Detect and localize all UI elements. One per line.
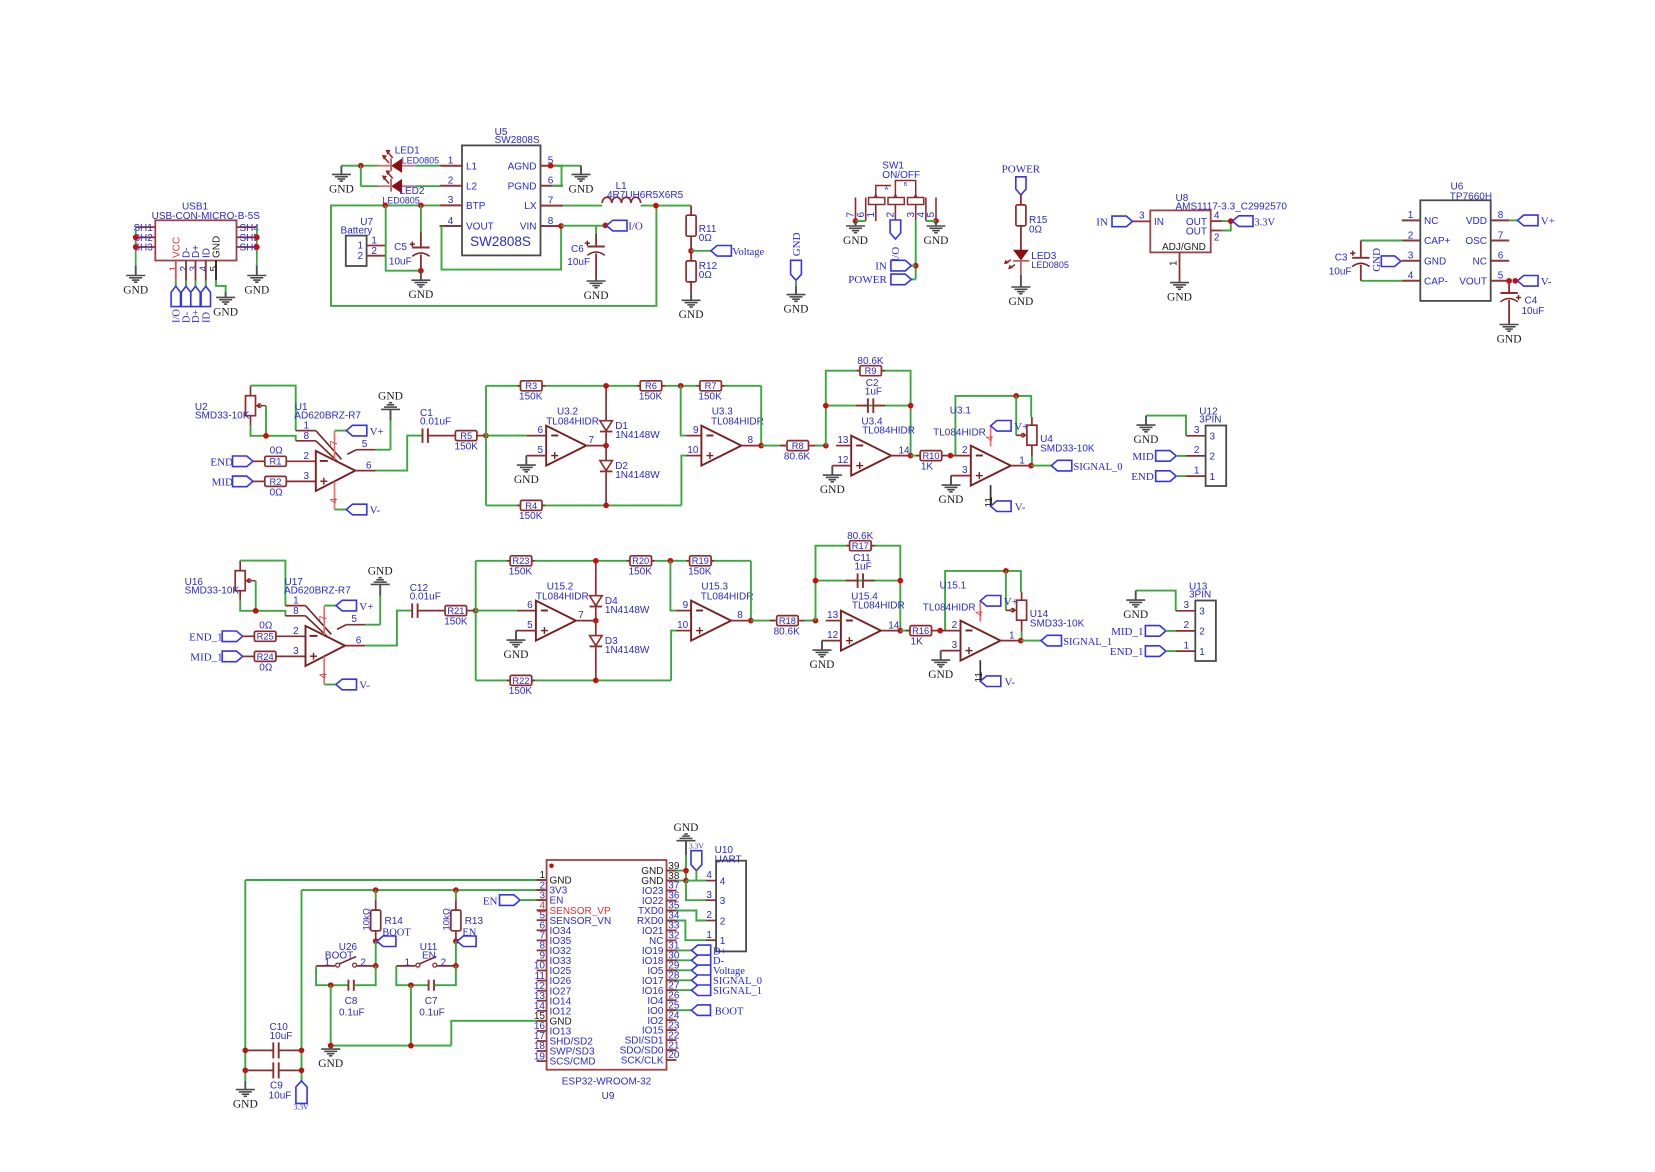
- svg-text:SIGNAL_0: SIGNAL_0: [1074, 462, 1123, 473]
- svg-text:7: 7: [589, 435, 595, 446]
- svg-text:150K: 150K: [629, 566, 653, 577]
- svg-text:PGND: PGND: [508, 181, 537, 192]
- svg-text:2: 2: [1199, 627, 1205, 638]
- svg-text:MID: MID: [212, 477, 233, 489]
- svg-text:GND: GND: [1008, 296, 1033, 308]
- svg-text:V-: V-: [1015, 501, 1026, 513]
- svg-text:8: 8: [1498, 210, 1504, 221]
- svg-text:R24: R24: [257, 652, 274, 662]
- svg-text:5: 5: [537, 445, 543, 456]
- svg-text:0Ω: 0Ω: [270, 445, 284, 456]
- svg-text:1: 1: [1169, 260, 1180, 266]
- svg-text:3: 3: [1194, 425, 1200, 436]
- svg-text:END: END: [210, 457, 233, 469]
- svg-text:4R7UH6R5X6R5: 4R7UH6R5X6R5: [607, 190, 684, 201]
- svg-text:VDD: VDD: [1466, 216, 1487, 227]
- svg-text:I/O: I/O: [628, 221, 643, 233]
- svg-text:5: 5: [362, 439, 368, 450]
- svg-text:8: 8: [303, 431, 309, 442]
- svg-text:2: 2: [1408, 230, 1414, 241]
- svg-text:TL084HIDR: TL084HIDR: [923, 602, 976, 613]
- svg-text:1N4148W: 1N4148W: [615, 430, 660, 441]
- svg-text:19: 19: [534, 1051, 546, 1062]
- svg-text:1: 1: [866, 212, 877, 218]
- svg-text:2: 2: [1184, 620, 1190, 631]
- svg-text:6: 6: [537, 425, 543, 436]
- svg-text:10kΩ: 10kΩ: [361, 908, 372, 930]
- svg-text:7: 7: [329, 440, 340, 446]
- svg-text:U3.1: U3.1: [950, 405, 972, 416]
- svg-text:Battery: Battery: [341, 225, 373, 236]
- svg-text:R9: R9: [865, 366, 877, 376]
- svg-text:LED0805: LED0805: [402, 156, 440, 166]
- svg-text:0Ω: 0Ω: [259, 620, 273, 631]
- svg-text:3: 3: [706, 890, 712, 901]
- svg-text:ON/OFF: ON/OFF: [882, 170, 920, 181]
- svg-text:MID: MID: [1132, 451, 1153, 463]
- svg-text:2: 2: [952, 620, 958, 631]
- svg-text:EN: EN: [462, 928, 476, 939]
- svg-text:V+: V+: [1004, 596, 1018, 608]
- svg-text:R7: R7: [705, 381, 717, 391]
- svg-text:GND: GND: [791, 232, 803, 256]
- svg-text:12: 12: [837, 455, 849, 466]
- svg-text:2: 2: [706, 910, 712, 921]
- svg-text:0Ω: 0Ω: [699, 270, 713, 281]
- svg-text:L1: L1: [466, 161, 478, 172]
- svg-text:3: 3: [1139, 211, 1145, 222]
- svg-text:2: 2: [1214, 232, 1220, 243]
- svg-text:R13: R13: [465, 916, 484, 927]
- svg-text:13: 13: [827, 610, 839, 621]
- svg-text:UART: UART: [715, 854, 742, 865]
- svg-text:10uF: 10uF: [1329, 267, 1352, 278]
- svg-text:OUT: OUT: [1186, 227, 1207, 238]
- svg-text:R25: R25: [257, 632, 274, 642]
- svg-text:2: 2: [1194, 445, 1200, 456]
- svg-text:VOUT: VOUT: [1459, 277, 1487, 288]
- svg-text:1K: 1K: [911, 636, 924, 647]
- svg-text:1: 1: [1210, 472, 1216, 483]
- svg-text:150K: 150K: [509, 686, 533, 697]
- svg-text:R23: R23: [512, 556, 529, 566]
- svg-text:TL084HIDR: TL084HIDR: [862, 426, 915, 437]
- svg-text:3.3V: 3.3V: [689, 842, 704, 851]
- svg-text:10uF: 10uF: [389, 256, 412, 267]
- svg-text:1N4148W: 1N4148W: [615, 470, 660, 481]
- svg-text:2: 2: [962, 445, 968, 456]
- svg-text:R22: R22: [512, 676, 529, 686]
- svg-text:2: 2: [1210, 452, 1216, 463]
- svg-text:13: 13: [837, 435, 849, 446]
- svg-text:20: 20: [668, 1050, 680, 1061]
- svg-text:GND: GND: [514, 474, 539, 486]
- svg-text:2: 2: [360, 958, 366, 969]
- svg-text:5: 5: [926, 212, 937, 218]
- svg-text:150K: 150K: [688, 566, 712, 577]
- svg-text:4: 4: [720, 876, 726, 887]
- svg-text:R4: R4: [525, 501, 537, 511]
- svg-text:V-: V-: [370, 505, 381, 517]
- svg-text:1: 1: [706, 930, 712, 941]
- svg-text:GND: GND: [408, 289, 433, 301]
- svg-text:10uF: 10uF: [269, 1090, 292, 1101]
- svg-text:POWER: POWER: [1002, 164, 1041, 176]
- svg-text:0.1uF: 0.1uF: [419, 1007, 445, 1018]
- svg-text:C3: C3: [1335, 252, 1348, 263]
- svg-text:1: 1: [1184, 640, 1190, 651]
- svg-text:GND: GND: [1167, 292, 1192, 304]
- svg-text:SW2808S: SW2808S: [495, 135, 540, 146]
- svg-text:R17: R17: [852, 541, 869, 551]
- svg-text:SMD33-10K: SMD33-10K: [1030, 619, 1085, 630]
- svg-text:EN: EN: [422, 951, 436, 962]
- svg-text:GND: GND: [1134, 434, 1159, 446]
- svg-text:2: 2: [293, 626, 299, 637]
- svg-text:1: 1: [1194, 465, 1200, 476]
- svg-text:2: 2: [448, 176, 454, 187]
- svg-text:10: 10: [687, 445, 699, 456]
- svg-text:ESP32-WROOM-32: ESP32-WROOM-32: [562, 1076, 652, 1087]
- svg-text:1K: 1K: [921, 461, 934, 472]
- svg-text:4: 4: [448, 216, 454, 227]
- svg-text:V-: V-: [1541, 276, 1552, 288]
- svg-text:POWER: POWER: [848, 274, 887, 286]
- svg-text:IN: IN: [1154, 217, 1164, 228]
- svg-text:4: 4: [329, 498, 340, 504]
- svg-text:C8: C8: [345, 996, 358, 1007]
- svg-text:LED0805: LED0805: [1031, 260, 1069, 270]
- svg-text:2: 2: [303, 451, 309, 462]
- svg-text:1: 1: [303, 420, 309, 431]
- svg-text:CAP+: CAP+: [1424, 236, 1451, 247]
- svg-text:8: 8: [748, 435, 754, 446]
- svg-text:3: 3: [962, 465, 968, 476]
- svg-text:GND: GND: [504, 649, 529, 661]
- svg-text:C4: C4: [1525, 295, 1538, 306]
- svg-text:7: 7: [548, 195, 554, 206]
- svg-text:SMD33-10K: SMD33-10K: [195, 410, 250, 421]
- svg-text:BTP: BTP: [466, 201, 486, 212]
- svg-text:V+: V+: [359, 601, 373, 613]
- svg-text:BOOT: BOOT: [715, 1006, 744, 1017]
- svg-text:3PIN: 3PIN: [1189, 589, 1211, 600]
- svg-text:150K: 150K: [455, 441, 479, 452]
- svg-text:2: 2: [357, 251, 363, 262]
- svg-text:GND: GND: [212, 236, 223, 258]
- svg-text:CAP-: CAP-: [1424, 277, 1448, 288]
- svg-text:SIGNAL_1: SIGNAL_1: [1063, 637, 1112, 648]
- svg-text:4: 4: [1408, 271, 1414, 282]
- svg-text:V+: V+: [370, 426, 384, 438]
- svg-text:R19: R19: [692, 556, 709, 566]
- svg-text:GND: GND: [318, 1058, 343, 1070]
- svg-text:7: 7: [578, 610, 584, 621]
- svg-text:C7: C7: [425, 996, 438, 1007]
- svg-text:GND: GND: [784, 304, 809, 316]
- svg-text:NC: NC: [1424, 216, 1438, 227]
- svg-text:3PIN: 3PIN: [1199, 414, 1221, 425]
- svg-text:6: 6: [1498, 251, 1504, 262]
- svg-text:GND: GND: [924, 235, 949, 247]
- svg-text:3.3V: 3.3V: [1254, 217, 1275, 228]
- svg-text:TL084HIDR: TL084HIDR: [933, 427, 986, 438]
- svg-text:END_1: END_1: [189, 632, 223, 644]
- svg-text:5: 5: [1498, 271, 1504, 282]
- svg-text:10uF: 10uF: [567, 257, 590, 268]
- svg-text:0.01uF: 0.01uF: [420, 417, 451, 428]
- svg-text:U15.1: U15.1: [940, 580, 967, 591]
- svg-text:10kΩ: 10kΩ: [442, 908, 453, 930]
- svg-text:1: 1: [405, 958, 411, 969]
- svg-text:0.01uF: 0.01uF: [410, 592, 441, 603]
- svg-text:3: 3: [1184, 600, 1190, 611]
- svg-text:150K: 150K: [509, 566, 533, 577]
- svg-text:R10: R10: [922, 451, 939, 461]
- svg-text:GND: GND: [584, 290, 609, 302]
- svg-text:C5: C5: [394, 242, 407, 253]
- svg-text:10uF: 10uF: [1522, 306, 1545, 317]
- svg-text:1: 1: [324, 958, 330, 969]
- svg-text:I/O: I/O: [890, 247, 902, 262]
- svg-text:1N4148W: 1N4148W: [605, 605, 650, 616]
- svg-text:SMD33-10K: SMD33-10K: [185, 585, 240, 596]
- svg-text:R16: R16: [912, 626, 929, 636]
- svg-text:R18: R18: [779, 616, 796, 626]
- svg-text:SCS/CMD: SCS/CMD: [550, 1057, 596, 1068]
- svg-text:7: 7: [319, 615, 330, 621]
- svg-text:2: 2: [886, 212, 897, 218]
- svg-text:GND: GND: [329, 183, 354, 195]
- svg-text:EN: EN: [483, 895, 498, 907]
- svg-text:SW2808S: SW2808S: [470, 234, 531, 249]
- svg-text:80.6K: 80.6K: [774, 627, 800, 638]
- svg-text:80.6K: 80.6K: [784, 452, 810, 463]
- svg-text:V-: V-: [1005, 676, 1016, 688]
- svg-text:GND: GND: [820, 484, 845, 496]
- svg-text:AGND: AGND: [508, 161, 537, 172]
- svg-text:IN: IN: [1096, 216, 1108, 228]
- svg-text:5: 5: [209, 266, 220, 272]
- svg-text:0.1uF: 0.1uF: [339, 1007, 365, 1018]
- svg-text:GND: GND: [810, 659, 835, 671]
- svg-text:R8: R8: [792, 441, 804, 451]
- svg-text:MID_1: MID_1: [190, 652, 222, 664]
- svg-text:3: 3: [448, 195, 454, 206]
- svg-text:NC: NC: [1473, 256, 1487, 267]
- svg-text:ID: ID: [201, 312, 212, 323]
- svg-text:END: END: [1131, 471, 1154, 483]
- svg-text:GND: GND: [843, 235, 868, 247]
- svg-text:VOUT: VOUT: [466, 222, 494, 233]
- svg-text:GND: GND: [679, 309, 704, 321]
- svg-text:V+: V+: [1014, 421, 1028, 433]
- svg-text:1: 1: [1009, 630, 1015, 641]
- svg-text:GND: GND: [674, 822, 699, 834]
- svg-text:Voltage: Voltage: [732, 247, 764, 258]
- svg-text:3: 3: [1199, 607, 1205, 618]
- svg-text:3: 3: [952, 640, 958, 651]
- svg-text:1uF: 1uF: [865, 386, 882, 397]
- svg-text:TL084HIDR: TL084HIDR: [711, 416, 764, 427]
- svg-text:R2: R2: [270, 477, 282, 487]
- svg-text:V-: V-: [359, 680, 370, 692]
- svg-text:150K: 150K: [519, 391, 543, 402]
- svg-text:2: 2: [441, 958, 447, 969]
- svg-text:5: 5: [527, 620, 533, 631]
- svg-text:10: 10: [677, 620, 689, 631]
- svg-text:3: 3: [720, 896, 726, 907]
- svg-text:2: 2: [720, 916, 726, 927]
- svg-text:U9: U9: [602, 1091, 615, 1102]
- svg-text:6: 6: [527, 600, 533, 611]
- svg-text:ADJ/GND: ADJ/GND: [1162, 242, 1206, 253]
- svg-text:R5: R5: [460, 431, 472, 441]
- svg-text:8: 8: [737, 610, 743, 621]
- svg-text:LX: LX: [524, 201, 537, 212]
- svg-text:1: 1: [1019, 455, 1025, 466]
- svg-text:TL084HIDR: TL084HIDR: [701, 591, 754, 602]
- svg-text:GND: GND: [1497, 333, 1522, 345]
- svg-text:3: 3: [1210, 432, 1216, 443]
- svg-text:SMD33-10K: SMD33-10K: [1040, 444, 1095, 455]
- svg-text:GND: GND: [569, 183, 594, 195]
- svg-text:1: 1: [293, 595, 299, 606]
- svg-text:R20: R20: [632, 556, 649, 566]
- svg-text:TL084HIDR: TL084HIDR: [546, 416, 599, 427]
- svg-text:150K: 150K: [639, 391, 663, 402]
- svg-text:4: 4: [975, 610, 986, 616]
- svg-text:12: 12: [827, 630, 839, 641]
- svg-text:80.6K: 80.6K: [847, 531, 873, 542]
- svg-text:TL084HIDR: TL084HIDR: [852, 601, 905, 612]
- svg-text:4: 4: [319, 673, 330, 679]
- svg-text:TL084HIDR: TL084HIDR: [536, 591, 589, 602]
- svg-text:MID_1: MID_1: [1111, 626, 1143, 638]
- svg-text:SIGNAL_1: SIGNAL_1: [713, 986, 762, 997]
- svg-text:3: 3: [293, 646, 299, 657]
- svg-text:150K: 150K: [698, 391, 722, 402]
- svg-text:SCK/CLK: SCK/CLK: [621, 1056, 664, 1067]
- svg-text:150K: 150K: [519, 511, 543, 522]
- svg-text:GND: GND: [233, 1099, 258, 1111]
- svg-text:GND: GND: [939, 494, 964, 506]
- svg-text:0Ω: 0Ω: [1029, 224, 1043, 235]
- svg-text:10uF: 10uF: [270, 1031, 293, 1042]
- svg-text:8: 8: [293, 606, 299, 617]
- svg-text:C6: C6: [571, 244, 584, 255]
- svg-text:R21: R21: [447, 606, 464, 616]
- svg-text:R3: R3: [525, 381, 537, 391]
- svg-text:80.6K: 80.6K: [857, 356, 883, 367]
- svg-text:0Ω: 0Ω: [270, 487, 284, 498]
- svg-text:END_1: END_1: [1110, 646, 1144, 658]
- svg-text:1: 1: [448, 156, 454, 167]
- svg-text:L2: L2: [466, 181, 478, 192]
- svg-text:GND: GND: [213, 306, 238, 318]
- svg-text:1: 1: [1408, 210, 1414, 221]
- svg-text:150K: 150K: [444, 616, 468, 627]
- svg-text:VIN: VIN: [520, 222, 537, 233]
- svg-text:3: 3: [303, 471, 309, 482]
- svg-text:V+: V+: [1541, 216, 1555, 228]
- svg-text:8: 8: [548, 216, 554, 227]
- svg-text:USB-CON-MICRO-B-5S: USB-CON-MICRO-B-5S: [152, 211, 261, 222]
- svg-text:2: 2: [371, 246, 377, 257]
- svg-text:OSC: OSC: [1465, 236, 1487, 247]
- svg-text:9: 9: [683, 600, 689, 611]
- svg-text:4: 4: [706, 870, 712, 881]
- svg-text:4: 4: [1214, 210, 1220, 221]
- svg-text:GND: GND: [244, 284, 269, 296]
- svg-text:R1: R1: [270, 457, 282, 467]
- svg-text:GND: GND: [928, 669, 953, 681]
- svg-text:3: 3: [1408, 251, 1414, 262]
- svg-text:IN: IN: [875, 260, 887, 272]
- svg-text:1: 1: [1199, 647, 1205, 658]
- svg-text:GND: GND: [1123, 609, 1148, 621]
- svg-text:GND: GND: [368, 566, 393, 578]
- svg-text:1uF: 1uF: [854, 561, 871, 572]
- svg-text:GND: GND: [1424, 256, 1446, 267]
- svg-text:4: 4: [985, 435, 996, 441]
- svg-text:0Ω: 0Ω: [259, 662, 273, 673]
- svg-text:0Ω: 0Ω: [699, 233, 713, 244]
- svg-text:GND: GND: [123, 284, 148, 296]
- svg-text:7: 7: [1498, 230, 1504, 241]
- svg-text:GND: GND: [378, 391, 403, 403]
- svg-text:5: 5: [351, 614, 357, 625]
- svg-text:1N4148W: 1N4148W: [605, 645, 650, 656]
- svg-text:BOOT: BOOT: [382, 928, 411, 939]
- svg-text:3.3V: 3.3V: [294, 1103, 309, 1112]
- svg-text:9: 9: [693, 425, 699, 436]
- svg-text:R14: R14: [385, 916, 404, 927]
- svg-text:R6: R6: [645, 381, 657, 391]
